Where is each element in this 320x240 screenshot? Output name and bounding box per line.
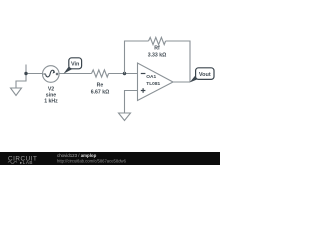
label V2 sine 1 kHz xyxy=(44,87,58,105)
wire resistor Re to op-amp inverting input xyxy=(109,73,138,75)
node A junction dot xyxy=(24,72,27,75)
ground (left) xyxy=(11,88,22,96)
wire feedback up and across xyxy=(125,41,149,74)
svg-text:6.67 kΩ: 6.67 kΩ xyxy=(91,90,110,96)
svg-text:Vout: Vout xyxy=(199,72,211,78)
wire source to resistor Re xyxy=(59,73,91,75)
node B inverting input junction dot xyxy=(123,72,126,75)
svg-text:Vin: Vin xyxy=(71,62,80,68)
svg-text:3.33 kΩ: 3.33 kΩ xyxy=(148,53,167,59)
svg-text:http://circuitlab.com/c/5867ac: http://circuitlab.com/c/5867ace58dw6 xyxy=(57,159,127,164)
voltage source V2 xyxy=(43,66,60,83)
svg-text:Rf: Rf xyxy=(154,46,160,52)
label Re 6.67 k xyxy=(91,83,110,96)
label Rf 3.33 k xyxy=(148,46,167,59)
svg-text:OA1: OA1 xyxy=(146,74,156,80)
resistor Re xyxy=(92,70,109,77)
wire ground drop from left junction xyxy=(16,74,26,89)
svg-text:1 kHz: 1 kHz xyxy=(44,99,58,105)
svg-text:chovid123 / amplop: chovid123 / amplop xyxy=(57,153,97,158)
flag Vin xyxy=(64,58,82,74)
wire non-inverting input to ground xyxy=(125,91,138,114)
wire stub above left junction xyxy=(25,65,27,74)
op-amp OA1 xyxy=(138,63,174,101)
wire left junction to source xyxy=(26,73,43,75)
svg-text:TL081: TL081 xyxy=(146,81,160,87)
flag Vout xyxy=(190,68,214,83)
watermark bar xyxy=(0,152,220,165)
wire feedback right and down to output xyxy=(166,41,190,82)
ground (op-amp) xyxy=(119,113,131,121)
svg-text:Re: Re xyxy=(97,83,104,89)
svg-text:▸LAB: ▸LAB xyxy=(20,160,33,165)
resistor Rf xyxy=(149,37,166,44)
wire op-amp output xyxy=(173,81,190,83)
